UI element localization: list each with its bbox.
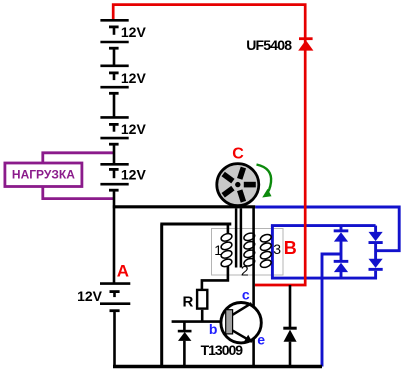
svg-text:3: 3: [273, 241, 281, 257]
svg-text:12V: 12V: [77, 288, 103, 304]
svg-text:12V: 12V: [121, 121, 147, 137]
svg-text:Т13009: Т13009: [201, 342, 244, 358]
svg-text:1: 1: [214, 242, 222, 258]
svg-text:12V: 12V: [121, 167, 147, 183]
svg-text:2: 2: [241, 262, 249, 278]
svg-text:C: C: [232, 145, 244, 162]
svg-text:B: B: [284, 238, 297, 258]
svg-text:A: A: [117, 261, 129, 280]
svg-text:R: R: [183, 294, 194, 311]
svg-text:12V: 12V: [121, 24, 147, 40]
svg-text:b: b: [209, 321, 218, 337]
svg-text:НАГРУЗКА: НАГРУЗКА: [12, 167, 75, 181]
svg-text:12V: 12V: [121, 70, 147, 86]
svg-text:e: e: [257, 331, 265, 347]
svg-text:UF5408: UF5408: [246, 37, 292, 53]
svg-text:c: c: [242, 286, 250, 302]
